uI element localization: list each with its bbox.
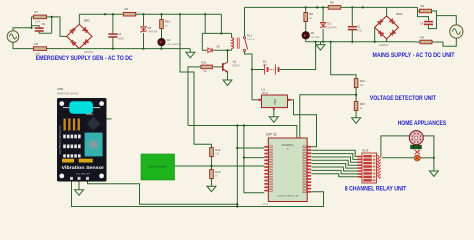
junction dots mains lower rail (315, 41, 376, 43)
svg-text:BR2: BR2 (84, 19, 90, 23)
battery B2 (252, 65, 279, 75)
fan symbol (415, 150, 420, 155)
value R14 (360, 85, 365, 87)
bridge rectifier BR2 (67, 24, 92, 48)
wire rail end elbow to coil (220, 14, 222, 33)
svg-text:R5: R5 (330, 1, 334, 5)
svg-text:D2: D2 (311, 31, 315, 35)
title VOLTAGE DETECTOR UNIT (370, 95, 436, 102)
zener diode D3 (320, 7, 326, 41)
node R14/R15 junction (355, 94, 357, 96)
svg-text:B2: B2 (263, 59, 267, 63)
svg-text:TestPin: TestPin (86, 113, 94, 116)
resistor R7 (32, 15, 52, 19)
svg-text:R7: R7 (35, 10, 39, 14)
svg-text:1N4734A: 1N4734A (327, 26, 337, 29)
label C4 (118, 32, 122, 36)
svg-text:RLY8: RLY8 (362, 149, 369, 153)
node R7/C9 left (30, 17, 32, 29)
wire VIB1 pin2 to ground (78, 182, 80, 190)
wire branch to ESP32 pin row 4 (243, 124, 265, 157)
value C2 470u (357, 30, 363, 33)
value R12 (215, 154, 220, 156)
label D2 (311, 31, 315, 35)
wire V1 bottom loop to R4 (433, 38, 457, 46)
wire R11 to ESP32 EN (long) (188, 67, 201, 126)
label R5 (330, 1, 334, 5)
resistor R9 (series in rail) (123, 12, 136, 16)
wire relay to lamp (382, 157, 434, 159)
svg-text:G5CLE: G5CLE (247, 39, 255, 41)
label U1 (262, 87, 266, 91)
transistor Q1 (213, 62, 227, 72)
label R6 (35, 42, 39, 46)
wire rail drop at 205 to D6/coil node (204, 14, 206, 33)
junction dots on emergency rails (104, 13, 206, 50)
wire emergency top rail (79, 13, 221, 15)
svg-text:2W005G: 2W005G (379, 44, 389, 47)
value B2 12V (263, 64, 268, 67)
svg-text:U1: U1 (262, 87, 266, 91)
svg-text:VIB1: VIB1 (57, 87, 64, 91)
value D4 LED-GREEN (167, 44, 180, 46)
wire Q1 emitter to ground (227, 71, 229, 80)
label C2 (357, 25, 361, 29)
svg-text:R14: R14 (360, 79, 366, 83)
capacitor C2 (348, 7, 357, 41)
ground (appliances) (429, 171, 438, 177)
label C9 (42, 22, 46, 26)
label RU1 (362, 149, 369, 153)
wire RL1 pole riser to mains rail (244, 7, 246, 36)
wire EN bus to ESP32 top (188, 126, 297, 139)
svg-text:C4: C4 (118, 32, 122, 36)
AC source V2 (emergency generator) (7, 31, 19, 43)
svg-text:BR1: BR1 (397, 12, 403, 16)
svg-text:2W005G: 2W005G (84, 51, 94, 54)
motor base bar (410, 145, 422, 149)
svg-text:100k: 100k (35, 21, 41, 24)
label D3 (327, 22, 331, 26)
value R10 1k (165, 24, 168, 27)
value D5 1N4734A (148, 31, 158, 34)
wire interface output to ESP32 (175, 165, 265, 167)
wire BR2 bottom rail (62, 48, 190, 50)
node B2 branch (251, 68, 253, 70)
ground (R15) (352, 118, 361, 124)
label R8 (309, 12, 313, 16)
relay RL1 contact (243, 36, 247, 51)
title 8 CHANNEL RELAY UNIT (345, 186, 407, 193)
svg-text:Vibration Sensor: Vibration Sensor (62, 165, 105, 170)
svg-text:EMERGENCY SUPPLY GEN - AC TO D: EMERGENCY SUPPLY GEN - AC TO DC (36, 55, 133, 62)
value R15 (360, 108, 363, 110)
capacitor C9 (32, 26, 52, 34)
svg-text:R8: R8 (309, 12, 313, 16)
svg-text:Ard Vib Interface: Ard Vib Interface (149, 165, 167, 168)
svg-text:R15: R15 (360, 102, 366, 106)
value VIB1 VIBRATION SW-420 (57, 92, 79, 95)
lamp L1 (414, 155, 420, 161)
value R8 1k (309, 17, 312, 20)
bridge rectifier BR1 (375, 7, 399, 41)
vibration sensor module VIB1 (57, 98, 107, 182)
svg-text:R6: R6 (35, 42, 39, 46)
wire right node to BR2 left vertex (52, 17, 67, 37)
wire rail to R12 supply (long vertical A) (180, 14, 212, 148)
label R13 (215, 170, 221, 174)
svg-text:D4: D4 (167, 38, 171, 42)
mains lower rail (306, 41, 416, 43)
label ESP 32 (266, 132, 277, 136)
resistor R10 (160, 14, 164, 38)
ground (U1) (269, 110, 278, 122)
label R14 (360, 79, 366, 83)
svg-text:R13: R13 (215, 170, 221, 174)
label R10 (165, 19, 171, 23)
label R7 (35, 10, 39, 14)
label RL1 (247, 33, 253, 37)
wire U1 output to ESP32 right pin 1 (291, 100, 317, 147)
wire VIB1 TestPin stub (107, 118, 112, 120)
wire divider tap to ESP32 top (300, 95, 356, 138)
resistor R5 (series in rail) (328, 6, 341, 10)
resistor R12 (210, 148, 214, 166)
svg-text:MAINS SUPPLY - AC TO DC UNIT: MAINS SUPPLY - AC TO DC UNIT (373, 52, 455, 59)
resistor R11 (201, 65, 213, 69)
svg-text:D3: D3 (327, 22, 331, 26)
resistor R4 (415, 40, 432, 44)
svg-text:RL1: RL1 (247, 33, 253, 37)
svg-text:R12: R12 (215, 148, 221, 152)
svg-text:R10: R10 (165, 19, 171, 23)
svg-text:VIBRATION SW-420: VIBRATION SW-420 (57, 92, 79, 95)
svg-text:VOLTAGE DETECTOR UNIT: VOLTAGE DETECTOR UNIT (370, 95, 436, 102)
wire branch to ESP32 pin row 1 (236, 124, 264, 149)
label GP10 (263, 204, 269, 206)
svg-text:www.TheEngineeringProjects.com: www.TheEngineeringProjects.com (58, 125, 61, 154)
value U1 78L05 (262, 93, 269, 95)
resistor R15 (354, 102, 358, 118)
label BR2 (84, 19, 90, 23)
ground (mains rail) (316, 42, 325, 50)
label D4 (167, 38, 171, 42)
vibration interface block (141, 154, 175, 180)
svg-text:R11: R11 (202, 60, 207, 64)
svg-text:VCC GND OUT: VCC GND OUT (76, 173, 91, 175)
svg-text:GP10: GP10 (263, 204, 269, 206)
resistor R14 (354, 79, 358, 102)
value R7 (35, 21, 41, 24)
svg-text:470u: 470u (357, 30, 363, 33)
svg-text:LED-GREEN: LED-GREEN (167, 44, 180, 46)
wire mains rail to R14 (331, 42, 356, 79)
svg-text:1000u: 1000u (118, 37, 125, 40)
label R12 (215, 148, 221, 152)
label C6 (420, 21, 424, 25)
svg-text:C2: C2 (357, 25, 361, 29)
wire U1 input (252, 99, 258, 101)
wire node coil top (202, 32, 231, 37)
svg-text:C6: C6 (420, 21, 424, 25)
zener diode D5 (140, 14, 146, 48)
svg-text:D5: D5 (148, 26, 152, 30)
svg-text:LED-RED: LED-RED (311, 37, 321, 39)
capacitor C4 (108, 14, 117, 48)
svg-text:ESP 32: ESP 32 (266, 132, 277, 136)
svg-text:NODEMCU ESP32 LAB: NODEMCU ESP32 LAB (277, 195, 299, 198)
value R13 (215, 176, 218, 178)
wire relay ch1 to motor (381, 136, 410, 157)
resistor R13 (210, 166, 214, 186)
value R11 10k (203, 70, 208, 73)
label D6 (217, 45, 221, 49)
wire branch to ESP32 bottom-left pin (243, 157, 265, 193)
label BR1 (397, 12, 403, 16)
value BR2 2W005G (84, 51, 94, 54)
svg-text:D6: D6 (217, 45, 221, 49)
value RL1 (247, 39, 255, 41)
label VIB1 (57, 87, 64, 91)
svg-text:R4: R4 (421, 35, 425, 39)
value R6 (35, 52, 40, 55)
wire VIB1 pin3 (OUT) (88, 182, 238, 205)
ground (Q1 emitter) (223, 80, 232, 86)
wires ESP32 to relay unit (8 channels) (311, 150, 357, 177)
capacitor C6 (418, 11, 437, 29)
value Q1 BC547 (233, 65, 241, 67)
svg-text:7805: 7805 (273, 98, 277, 104)
junction dots mains top rail (305, 6, 364, 8)
mains top rail (245, 6, 418, 8)
LED D2 (302, 32, 310, 42)
svg-text:Q1: Q1 (233, 60, 237, 64)
svg-text:R3: R3 (421, 4, 425, 8)
title HOME APPLIANCES (398, 120, 447, 127)
wire VIB1 pin1 (VCC) long bottom run (72, 182, 324, 207)
resistor R8 (304, 7, 308, 31)
label R15 (360, 102, 366, 106)
svg-text:HOME APPLIANCES: HOME APPLIANCES (398, 120, 447, 127)
diode D6 (freewheel) (202, 33, 231, 52)
AC source V1 (mains) (450, 25, 463, 38)
node R12/R13 junction (210, 165, 212, 167)
svg-text:1N4734A: 1N4734A (148, 31, 158, 34)
regulator U1 7805 (258, 95, 291, 110)
label R3 (421, 4, 425, 8)
svg-text:12V: 12V (263, 64, 268, 67)
svg-text:R9: R9 (125, 7, 129, 11)
wire V2 top to R7/C9 left node (13, 28, 32, 31)
svg-text:78L05: 78L05 (262, 93, 269, 95)
label R4 (421, 35, 425, 39)
svg-text:C9: C9 (42, 22, 46, 26)
value BR1 2W005G (379, 44, 389, 47)
label Q1 (233, 60, 237, 64)
value D2 LED-RED (311, 37, 321, 39)
wire RL1 throw to B2/U1 riser (245, 52, 253, 100)
microcontroller ESP32 U2 (264, 138, 311, 202)
wire motor right to ground bus (423, 136, 435, 171)
value D3 1N4734A (327, 26, 337, 29)
resistor R3 (418, 7, 457, 25)
label D5 (148, 26, 152, 30)
label R9 (125, 7, 129, 11)
relay module RU1 (8-channel) (358, 153, 381, 183)
wire Q1 collector to coil (226, 49, 228, 62)
resistor R6 (17, 47, 62, 51)
wire bottom bus link (236, 148, 238, 208)
title MAINS SUPPLY - AC TO DC UNIT (373, 52, 455, 59)
ground (R13) (207, 186, 216, 192)
relay coil RL1 (232, 38, 240, 51)
title EMERGENCY SUPPLY GEN - AC TO DC (36, 55, 133, 62)
value C4 1000u (118, 37, 125, 40)
wire B2 to mains lower rail (280, 42, 316, 70)
wire BR2 top vertex to top rail (78, 14, 80, 24)
LED D4 (158, 38, 166, 48)
svg-text:BC547: BC547 (233, 65, 241, 67)
ground (emergency 0V rail) (186, 49, 195, 58)
motor M1 (409, 131, 423, 145)
ground (VIB1) (75, 190, 84, 196)
wire V2 bottom to R6 (13, 42, 17, 48)
node R7/C9 right (51, 16, 53, 33)
svg-text:NODEMCU: NODEMCU (282, 144, 295, 147)
label R11 (202, 60, 207, 64)
label B2 (263, 59, 267, 63)
svg-text:8 CHANNEL RELAY UNIT: 8 CHANNEL RELAY UNIT (345, 186, 407, 193)
